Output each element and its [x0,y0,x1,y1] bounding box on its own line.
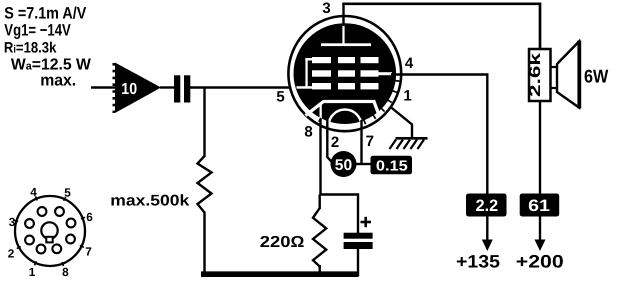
wire arrow +200 [535,217,546,252]
capacitor label 0.15 [371,156,413,175]
resistor 220 ohm cathode [313,208,326,267]
tube V1 grid row3 (g1) [312,83,379,89]
svg-text:220Ω: 220Ω [260,234,305,251]
wire input left [91,86,116,88]
current label 61 [520,194,560,217]
svg-text:2: 2 [331,134,339,151]
svg-text:6W: 6W [584,66,609,87]
wire 220 top [319,195,321,210]
wire pin1 to ground [390,107,412,139]
svg-text:3: 3 [322,0,330,17]
svg-text:Vg1= −14V: Vg1= −14V [4,22,71,40]
svg-text:3: 3 [9,215,16,229]
svg-text:2: 2 [8,247,15,261]
svg-text:max.500k: max.500k [110,193,189,210]
tube V1 screen lead to pin4 [379,72,393,75]
current label 2.2 [466,194,507,217]
svg-text:+135: +135 [456,252,500,272]
svg-text:10: 10 [121,81,137,98]
tube V1 electrode assembly (black disc) [294,23,397,124]
svg-text:61: 61 [528,197,550,215]
capacitor C1 coupling [174,75,190,102]
wire 2.6k to 61 branch [539,101,541,195]
tube V1 grid row1 [312,57,379,63]
tube rim stitch marks [319,81,400,125]
wire 500k to bottom rail [203,212,205,277]
svg-text:1: 1 [403,88,411,105]
svg-text:5: 5 [276,89,284,106]
ground [390,138,428,149]
svg-text:5: 5 [64,186,71,200]
tube V1 anode plate [321,43,371,46]
svg-text:7: 7 [366,133,374,150]
tube V1 g1 lead from pin5 [297,86,318,89]
capacitor electrolytic cathode bypass [344,233,373,249]
tube V1 cathode lead [320,103,322,123]
tube V1 anode lead [342,24,344,45]
svg-text:1: 1 [29,265,36,279]
wire arrow +135 [482,217,493,252]
current label 50 (circle) [331,151,357,177]
svg-text:50: 50 [335,157,352,174]
tube V1 grid row2 (screen g2) [312,70,379,76]
svg-text:4: 4 [30,185,37,199]
resistor max.500k grid leak [198,156,212,213]
tube V1 cathode [306,102,379,116]
wire pin8 cathode down [319,119,321,196]
svg-text:8: 8 [304,124,312,141]
socket ticks [14,196,85,266]
wire 220 bottom [319,265,321,276]
wire electrolytic branch [357,193,359,233]
speaker terminal stubs [551,67,558,88]
tube V1 envelope [288,16,401,131]
wire pin3 anode up [342,4,344,26]
tube V1 heater filament [329,110,362,126]
polarity plus sign [361,217,372,227]
wire pin2 heater down [327,120,332,163]
svg-text:6: 6 [86,210,93,224]
socket pin holes [25,207,75,253]
tube V1 grid tie elbow [305,58,312,89]
wire pin4 screen to +135 branch [391,75,487,196]
svg-text:7: 7 [85,245,92,259]
wire grid junction drop [203,88,205,158]
svg-text:4: 4 [405,55,414,72]
svg-text:max.: max. [40,72,76,90]
wire triangle to capacitor [160,86,175,88]
svg-text:+200: +200 [516,252,564,272]
svg-text:Ri=18.3k: Ri=18.3k [4,39,57,56]
svg-text:0.15: 0.15 [376,159,408,175]
svg-text:2.2: 2.2 [476,197,499,215]
svg-text:S =7.1m A/V: S =7.1m A/V [4,4,86,22]
wire pin7 heater down [360,120,362,165]
svg-text:8: 8 [62,265,69,279]
resistor 2.6k output load [527,49,551,101]
socket pin numbers [8,185,94,279]
svg-text:2.6k: 2.6k [527,52,544,97]
wire cathode junction horizontal [319,193,358,195]
wire top rail [342,4,540,50]
pickup input transducer 10 [114,63,161,114]
wire 50 to 0.15 [356,163,372,165]
wire electrolytic bottom [357,249,359,277]
wire bottom rail [201,271,359,277]
socket base outline [15,196,85,266]
wire capacitor to grid pin5 [190,86,294,88]
speaker 6W horn [557,41,579,109]
socket center spigot with key [41,222,57,242]
